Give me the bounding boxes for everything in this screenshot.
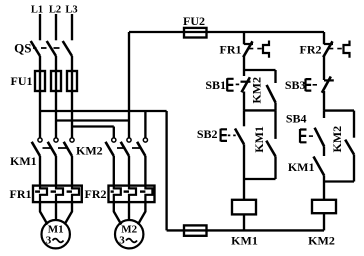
wire KM1 aux branch lower bbox=[274, 156, 276, 179]
wire junction split for KM2 aux parallel bbox=[244, 69, 276, 71]
wire KM2 aux branch upper bbox=[274, 70, 276, 83]
wire FU1 to KM1 pole3 bbox=[71, 71, 73, 138]
motor M2 text bbox=[119, 224, 137, 247]
svg-text:FR2: FR2 bbox=[300, 43, 322, 57]
wire coil KM1 to bottom rail bbox=[243, 214, 245, 230]
svg-text:FU1: FU1 bbox=[11, 74, 33, 88]
svg-text:KM1: KM1 bbox=[231, 234, 258, 248]
contactor KM1 main contacts label bbox=[10, 154, 37, 168]
thermal relay FR2 label bbox=[85, 187, 107, 201]
switch QS pole 2 blade bbox=[47, 41, 56, 56]
thermal relay FR2 heater element 1 bbox=[114, 186, 121, 203]
thermal relay FR1 heater element 2 bbox=[56, 186, 63, 203]
fuse FU1 pole1 bbox=[35, 71, 45, 91]
svg-text:L1: L1 bbox=[31, 5, 43, 16]
wire L3 down bbox=[71, 14, 73, 40]
label KM2 rotated branch2 bbox=[330, 126, 344, 153]
svg-text:KM1: KM1 bbox=[252, 126, 266, 153]
fuse FU2 label bbox=[183, 14, 205, 28]
thermal relay FR1 NC contact bbox=[243, 41, 269, 58]
fuse FU1 pole3 bbox=[67, 71, 77, 91]
contact KM1 auxiliary NO self-holding (parallel with SB2) bbox=[266, 141, 275, 157]
coil KM2 bbox=[312, 200, 336, 213]
thermal relay FR1 label bbox=[10, 187, 32, 201]
wire junction2 split for KM2 aux parallel bbox=[324, 109, 354, 111]
motor M1 text bbox=[46, 224, 64, 247]
node L2 bbox=[49, 5, 61, 16]
thermal relay FR2 box bbox=[109, 186, 155, 203]
wire to coil KM1 bbox=[243, 179, 245, 200]
svg-text:QS: QS bbox=[14, 41, 31, 56]
contactor KM2 pole3 contact bbox=[137, 138, 147, 156]
wire L1 down bbox=[39, 14, 41, 40]
contactor KM2 pole1 contact bbox=[106, 138, 116, 156]
wire KM2 poles to FR2 bbox=[114, 156, 146, 186]
wire phase3 branch horizontal bbox=[72, 125, 114, 127]
thermal relay FR1 NC contact label bbox=[220, 43, 242, 57]
pushbutton SB2 label bbox=[197, 127, 218, 141]
pushbutton SB4 label bbox=[286, 112, 307, 126]
wire rejoin3 junction bbox=[324, 180, 354, 182]
wire control feed vertical bbox=[128, 32, 130, 138]
wire branch2 corner from rail bbox=[323, 32, 325, 44]
thermal relay FR2 heater element 2 bbox=[129, 186, 136, 203]
wire SB3 to junction2 bbox=[323, 91, 325, 111]
motor M2 circle bbox=[115, 220, 143, 248]
wire FR2 to motor M2 leads bbox=[114, 202, 146, 224]
wire KM2 pole3 feed drop bbox=[144, 111, 146, 138]
switch QS pole 1 blade bbox=[31, 41, 40, 56]
node L1 bbox=[31, 5, 43, 16]
contactor KM2 linkage dashed line bbox=[117, 147, 141, 149]
switch QS linkage dashed line bbox=[33, 47, 60, 49]
switch QS label bbox=[14, 41, 31, 56]
svg-text:FU2: FU2 bbox=[183, 14, 205, 28]
thermal relay FR1 box bbox=[33, 186, 82, 203]
contactor KM1 pole3 contact bbox=[64, 138, 74, 156]
wire bottom control rail bbox=[167, 229, 324, 231]
pushbutton SB1 NC stop button bbox=[227, 77, 250, 92]
wire QS to FU1 pole1 bbox=[39, 56, 41, 71]
pushbutton SB4 NO start button bbox=[300, 128, 324, 147]
coil KM1 bbox=[232, 200, 256, 215]
thermal relay FR1 heater element 3 bbox=[72, 186, 79, 203]
thermal relay FR1 heater element 1 bbox=[40, 186, 47, 203]
wire FR1 to motor M1 leads bbox=[40, 202, 72, 224]
wire FU1 to KM1 pole2 bbox=[55, 71, 57, 138]
contact KM1 sequence NO bbox=[314, 157, 325, 176]
wire phase1 branch horizontal to control and KM2 bbox=[40, 110, 167, 112]
node L3 bbox=[65, 5, 77, 16]
svg-text:SB1: SB1 bbox=[205, 78, 226, 92]
svg-text:KM2: KM2 bbox=[308, 234, 335, 248]
pushbutton SB3 label bbox=[285, 78, 306, 92]
wire phase1 drop to bottom control rail bbox=[165, 111, 167, 230]
wire SB2 to rejoin2 bbox=[243, 144, 245, 179]
wire phase2 branch horizontal bbox=[56, 119, 129, 121]
wire to SB2 bbox=[243, 110, 245, 126]
svg-text:SB2: SB2 bbox=[197, 127, 218, 141]
wire KM1 poles to FR1 bbox=[40, 156, 72, 186]
thermal relay FR2 heater element 3 bbox=[145, 186, 152, 203]
wire to coil KM2 bbox=[323, 182, 325, 200]
label for KM1 sequence contact bbox=[288, 160, 315, 174]
svg-text:KM1: KM1 bbox=[288, 160, 315, 174]
wire FR1 contact to junction bbox=[243, 56, 245, 77]
pushbutton SB2 NO start button bbox=[221, 129, 244, 145]
thermal relay FR2 NC contact label bbox=[300, 43, 322, 57]
label KM2 rotated bbox=[250, 77, 264, 104]
wire L2 down bbox=[55, 14, 57, 40]
wire rejoin2 junction bbox=[244, 178, 276, 180]
svg-text:3: 3 bbox=[46, 235, 52, 247]
wire coil KM2 to bottom rail bbox=[323, 213, 325, 230]
fuse FU1 label bbox=[11, 74, 33, 88]
contactor KM2 main contacts label bbox=[76, 144, 103, 158]
svg-text:SB4: SB4 bbox=[286, 112, 307, 126]
fuse FU2 bbox=[184, 28, 207, 38]
svg-text:L3: L3 bbox=[65, 5, 77, 16]
pushbutton SB1 label bbox=[205, 78, 226, 92]
wire branch1 from rail bbox=[243, 32, 245, 44]
svg-text:KM2: KM2 bbox=[76, 144, 103, 158]
wire FR2 contact to SB3 bbox=[323, 56, 325, 81]
wire QS to FU1 pole2 bbox=[55, 56, 57, 71]
contactor KM2 pole2 contact bbox=[121, 138, 131, 156]
contactor KM1 pole2 contact bbox=[48, 138, 58, 156]
contactor KM1 pole1 contact bbox=[32, 138, 42, 156]
wire QS to FU1 pole3 bbox=[71, 56, 73, 71]
wire FU1 to KM1 pole1 bbox=[39, 71, 41, 138]
wire KM2 aux branch lower bbox=[274, 103, 276, 111]
wire SB1 to rejoin bbox=[243, 92, 245, 111]
label KM1 rotated bbox=[252, 126, 266, 153]
switch QS pole 3 blade bbox=[63, 41, 72, 56]
fuse FU2 lower bbox=[184, 225, 207, 235]
motor M1 circle bbox=[42, 220, 70, 248]
thermal relay FR2 NC contact bbox=[323, 41, 349, 58]
svg-text:KM1: KM1 bbox=[10, 154, 37, 168]
svg-text:FR2: FR2 bbox=[85, 187, 107, 201]
label coil KM1 bbox=[231, 234, 258, 248]
svg-text:FR1: FR1 bbox=[220, 43, 242, 57]
wire KM2 aux2 branch lower bbox=[353, 155, 355, 182]
wire KM1 aux branch upper bbox=[274, 110, 276, 138]
svg-text:L2: L2 bbox=[49, 5, 61, 16]
svg-text:FR1: FR1 bbox=[10, 187, 32, 201]
wire control top rail bbox=[129, 31, 324, 33]
wire SB4 to KM1 contact bbox=[323, 147, 325, 157]
wire KM2 pole1 feed drop bbox=[113, 127, 115, 138]
svg-text:KM2: KM2 bbox=[250, 77, 264, 104]
wire to SB4 bbox=[323, 111, 325, 118]
svg-text:3: 3 bbox=[119, 235, 125, 247]
svg-text:KM2: KM2 bbox=[330, 126, 344, 153]
contact KM2 auxiliary NO self-holding bbox=[345, 140, 354, 155]
wire rejoin junction bbox=[244, 109, 276, 111]
label coil KM2 bbox=[308, 234, 335, 248]
wire KM1 contact to rejoin3 bbox=[323, 176, 325, 182]
pushbutton SB3 NC stop button bbox=[306, 77, 334, 93]
wire KM2 aux2 branch upper bbox=[353, 111, 355, 138]
svg-text:SB3: SB3 bbox=[285, 78, 306, 92]
contact KM2 auxiliary NO (parallel with SB1) bbox=[267, 85, 276, 103]
fuse FU1 pole2 bbox=[51, 71, 61, 91]
contactor KM1 linkage dashed line bbox=[43, 147, 68, 149]
